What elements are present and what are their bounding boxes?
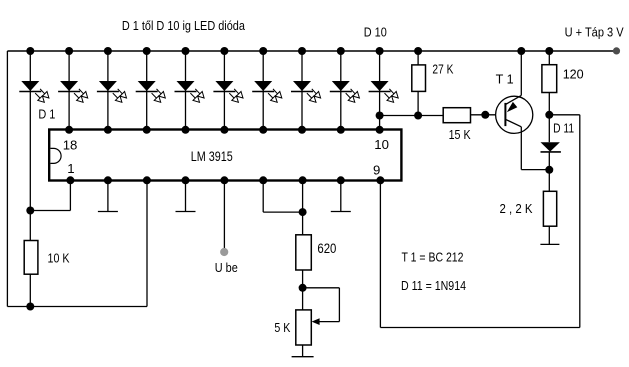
svg-text:T 1 = BC 212: T 1 = BC 212 bbox=[402, 249, 464, 264]
svg-text:U + Táp 3 V: U + Táp 3 V bbox=[565, 24, 624, 39]
svg-text:15 K: 15 K bbox=[449, 127, 471, 142]
svg-text:2 , 2 K: 2 , 2 K bbox=[500, 201, 533, 216]
svg-text:27 K: 27 K bbox=[432, 62, 453, 77]
svg-text:620: 620 bbox=[317, 241, 336, 256]
svg-text:D 10: D 10 bbox=[364, 25, 387, 40]
svg-text:D 11: D 11 bbox=[553, 121, 574, 136]
svg-text:10: 10 bbox=[374, 137, 389, 152]
svg-text:120: 120 bbox=[563, 67, 584, 82]
svg-text:D 1: D 1 bbox=[38, 107, 55, 122]
svg-text:9: 9 bbox=[373, 162, 380, 177]
svg-text:U be: U be bbox=[215, 260, 238, 275]
svg-text:T 1: T 1 bbox=[496, 71, 514, 86]
svg-text:LM 3915: LM 3915 bbox=[191, 149, 233, 164]
svg-text:1: 1 bbox=[67, 161, 74, 176]
svg-text:10 K: 10 K bbox=[48, 250, 70, 265]
svg-text:18: 18 bbox=[63, 138, 78, 153]
svg-text:D 1 től D 10 ig LED dióda: D 1 től D 10 ig LED dióda bbox=[122, 18, 246, 33]
svg-text:D 11 = 1N914: D 11 = 1N914 bbox=[401, 278, 466, 293]
svg-text:5 K: 5 K bbox=[274, 320, 290, 335]
